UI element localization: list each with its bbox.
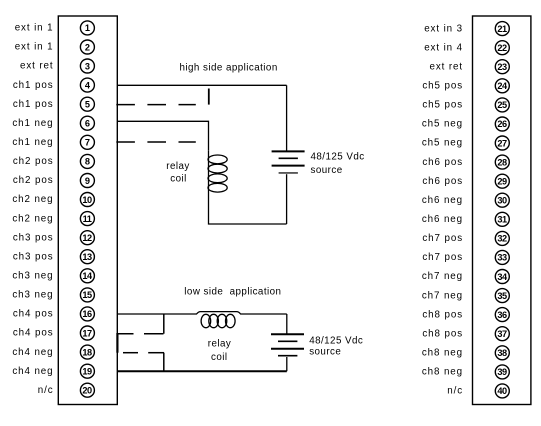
wire relay coil bottom to battery negative — [209, 194, 287, 224]
svg-text:ch3 pos: ch3 pos — [13, 232, 54, 243]
svg-text:4: 4 — [85, 80, 91, 90]
svg-text:ch7 neg: ch7 neg — [422, 271, 463, 282]
relay coil (high side) — [208, 151, 227, 194]
wire pin 16 to relay coil (low side) — [117, 312, 286, 314]
pin 27 — [495, 136, 509, 150]
pin 16 — [80, 307, 94, 321]
svg-text:30: 30 — [497, 196, 507, 206]
svg-text:source: source — [309, 346, 341, 357]
svg-text:6: 6 — [85, 119, 90, 129]
svg-text:ch4 neg: ch4 neg — [12, 347, 53, 358]
connector J1 (pins 1-20) — [58, 16, 117, 405]
svg-text:9: 9 — [85, 176, 90, 186]
svg-text:34: 34 — [497, 272, 508, 282]
pin 20 — [80, 383, 94, 397]
pin 9 — [80, 174, 94, 188]
svg-text:ch3 neg: ch3 neg — [12, 290, 53, 301]
svg-text:26: 26 — [497, 119, 507, 129]
svg-text:ch1 pos: ch1 pos — [13, 80, 54, 91]
pin 22 — [495, 41, 509, 55]
svg-text:29: 29 — [497, 177, 507, 187]
pin 29 — [495, 174, 509, 188]
pin 34 — [495, 270, 509, 284]
wire pin 17 dashed (contact sense) — [117, 333, 164, 335]
pin 26 — [495, 117, 509, 131]
pin 36 — [495, 308, 509, 322]
pin 5 — [80, 97, 94, 111]
svg-text:ch6 pos: ch6 pos — [422, 176, 463, 187]
svg-text:36: 36 — [497, 310, 507, 320]
svg-text:ch6 neg: ch6 neg — [422, 214, 463, 225]
svg-text:32: 32 — [497, 234, 507, 244]
svg-text:ch7 pos: ch7 pos — [422, 252, 463, 263]
svg-text:ch2 neg: ch2 neg — [12, 194, 53, 205]
svg-text:ch2 pos: ch2 pos — [13, 156, 54, 167]
svg-text:35: 35 — [497, 291, 507, 301]
svg-text:ch7 neg: ch7 neg — [422, 290, 463, 301]
svg-text:39: 39 — [497, 367, 507, 377]
value label 48/125 Vdc source (high side) — [311, 151, 365, 176]
svg-text:10: 10 — [82, 195, 92, 205]
svg-text:ext ret: ext ret — [20, 61, 54, 72]
svg-text:11: 11 — [83, 214, 92, 224]
pin 23 — [495, 60, 509, 74]
battery BT1 48/125 Vdc (high side) — [272, 151, 305, 173]
svg-text:ch5 pos: ch5 pos — [422, 100, 463, 111]
relay contact (normally open) — [208, 89, 210, 105]
svg-text:14: 14 — [82, 271, 93, 281]
wire pin 5 dashed (contact sense) — [116, 104, 196, 106]
pin 18 — [80, 345, 94, 359]
svg-text:source: source — [311, 165, 343, 176]
wire pin 7 dashed (contact sense) — [116, 141, 196, 143]
pin 37 — [495, 327, 509, 341]
svg-text:ch8 neg: ch8 neg — [422, 367, 463, 378]
svg-text:coil: coil — [170, 174, 187, 185]
svg-text:ch7 pos: ch7 pos — [422, 233, 463, 244]
wire battery vertical (high side) — [286, 85, 288, 224]
label relay coil (high side) — [166, 161, 190, 185]
pin 4 — [80, 78, 94, 92]
svg-text:48/125 Vdc: 48/125 Vdc — [309, 336, 363, 347]
svg-text:ext in 3: ext in 3 — [424, 23, 463, 34]
wire pin 18 dashed (contact sense) — [123, 352, 164, 354]
pin 6 — [80, 116, 94, 130]
connector J2 (pins 21-40) — [473, 16, 531, 405]
svg-text:22: 22 — [497, 43, 507, 53]
svg-text:n/c: n/c — [447, 386, 463, 397]
pin 28 — [495, 155, 509, 169]
pin 3 — [80, 59, 94, 73]
svg-text:16: 16 — [82, 309, 92, 319]
svg-text:ext in 1: ext in 1 — [15, 23, 54, 34]
svg-text:high side application: high side application — [180, 63, 278, 74]
pin 33 — [495, 250, 509, 264]
pin 38 — [495, 346, 509, 360]
wire junction pin 16 wire down to pin 17 contact — [163, 314, 165, 334]
relay coil (low side) — [201, 314, 235, 327]
pin 35 — [495, 289, 509, 303]
svg-text:ch8 neg: ch8 neg — [422, 348, 463, 359]
svg-text:ch8 pos: ch8 pos — [422, 328, 463, 339]
svg-text:ch4 pos: ch4 pos — [13, 328, 54, 339]
svg-text:ch4 neg: ch4 neg — [12, 366, 53, 377]
wire junction pin 18 contact down to pin 19 wire — [163, 353, 165, 372]
svg-text:17: 17 — [82, 328, 92, 338]
svg-text:20: 20 — [82, 386, 92, 396]
svg-text:28: 28 — [497, 157, 507, 167]
svg-text:ch8 pos: ch8 pos — [422, 309, 463, 320]
pin 24 — [495, 79, 509, 93]
wire pin 6 to relay coil top — [117, 121, 208, 151]
svg-text:48/125 Vdc: 48/125 Vdc — [311, 151, 365, 162]
pin 25 — [495, 98, 509, 112]
pin 13 — [80, 250, 94, 264]
svg-text:7: 7 — [85, 138, 90, 148]
svg-text:ch1 neg: ch1 neg — [12, 118, 53, 129]
svg-text:relay: relay — [166, 161, 190, 172]
svg-text:3: 3 — [85, 61, 90, 71]
value label 48/125 Vdc source (low side) — [309, 336, 363, 358]
svg-text:25: 25 — [497, 100, 507, 110]
svg-text:8: 8 — [85, 157, 90, 167]
svg-text:37: 37 — [497, 329, 507, 339]
svg-text:24: 24 — [497, 81, 508, 91]
svg-text:19: 19 — [82, 367, 92, 377]
pin 2 — [80, 40, 94, 54]
svg-text:coil: coil — [211, 352, 228, 363]
svg-text:2: 2 — [85, 42, 90, 52]
pin 14 — [80, 269, 94, 283]
pin 12 — [80, 231, 94, 245]
pin 21 — [495, 22, 509, 36]
svg-text:relay: relay — [208, 338, 232, 349]
svg-text:23: 23 — [497, 62, 507, 72]
pin 32 — [495, 231, 509, 245]
svg-text:33: 33 — [497, 253, 507, 263]
pin 11 — [80, 212, 94, 226]
pin 1 — [80, 21, 94, 35]
svg-text:38: 38 — [497, 348, 507, 358]
svg-text:18: 18 — [82, 347, 92, 357]
pin 30 — [495, 193, 509, 207]
svg-text:ch3 pos: ch3 pos — [13, 251, 54, 262]
svg-text:ext in 4: ext in 4 — [424, 42, 463, 53]
svg-text:21: 21 — [497, 24, 507, 34]
svg-text:ch2 pos: ch2 pos — [13, 175, 54, 186]
svg-text:ch3 neg: ch3 neg — [12, 271, 53, 282]
pin 19 — [80, 364, 94, 378]
wire pin 19 to battery negative (low side) — [118, 370, 287, 372]
pin 17 — [80, 326, 94, 340]
svg-text:13: 13 — [82, 252, 92, 262]
svg-text:low side application: low side application — [184, 287, 281, 298]
pin 40 — [495, 384, 509, 398]
svg-text:27: 27 — [497, 138, 507, 148]
svg-text:12: 12 — [82, 233, 92, 243]
pin 31 — [495, 212, 509, 226]
svg-text:ch5 neg: ch5 neg — [422, 119, 463, 130]
svg-text:ch6 pos: ch6 pos — [422, 157, 463, 168]
svg-text:ext ret: ext ret — [429, 61, 463, 72]
svg-text:n/c: n/c — [38, 385, 54, 396]
svg-text:ch1 neg: ch1 neg — [12, 137, 53, 148]
svg-text:1: 1 — [85, 23, 90, 33]
svg-text:15: 15 — [82, 290, 92, 300]
wire battery vertical (low side) — [286, 314, 288, 371]
pin 15 — [80, 288, 94, 302]
svg-text:ext in 1: ext in 1 — [15, 42, 54, 53]
svg-text:ch6 neg: ch6 neg — [422, 195, 463, 206]
wire pin 4 to battery positive — [117, 84, 286, 86]
pin 7 — [80, 135, 94, 149]
svg-text:ch1 pos: ch1 pos — [13, 99, 54, 110]
pin 10 — [80, 193, 94, 207]
pin 8 — [80, 154, 94, 168]
label relay coil (low side) — [208, 338, 232, 363]
battery BT2 48/125 Vdc (low side) — [271, 334, 304, 355]
junction bar pins 17-18 at connector — [116, 333, 118, 353]
svg-text:ch4 pos: ch4 pos — [13, 309, 54, 320]
svg-text:ch5 neg: ch5 neg — [422, 138, 463, 149]
pin 39 — [495, 365, 509, 379]
svg-text:5: 5 — [85, 100, 90, 110]
svg-text:ch5 pos: ch5 pos — [422, 81, 463, 92]
svg-text:ch2 neg: ch2 neg — [12, 213, 53, 224]
svg-text:40: 40 — [497, 386, 507, 396]
svg-text:31: 31 — [497, 215, 507, 225]
